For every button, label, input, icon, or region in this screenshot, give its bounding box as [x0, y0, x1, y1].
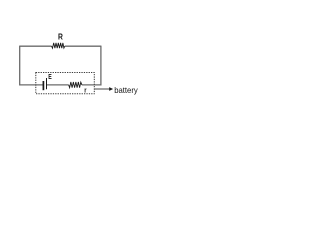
svg-text:R: R [58, 31, 63, 41]
arrow to battery label [95, 88, 111, 90]
resistor R zigzag [52, 43, 65, 48]
dashed battery boundary box [36, 73, 95, 94]
svg-text:battery: battery [114, 85, 138, 95]
svg-text:r: r [84, 86, 86, 95]
battery cell: left thick plate [42, 81, 44, 90]
wire: left side vertical [20, 46, 43, 85]
resistor r zigzag [69, 82, 82, 88]
wire: top side right segment [65, 45, 101, 47]
battery cell: right thin plate [46, 78, 48, 89]
wire: right side vertical [82, 46, 101, 85]
wire: bottom segment between cell and resistor r [47, 84, 69, 86]
arrowhead [109, 87, 113, 91]
wire: top side left segment [20, 45, 52, 47]
svg-text:E: E [48, 72, 52, 81]
